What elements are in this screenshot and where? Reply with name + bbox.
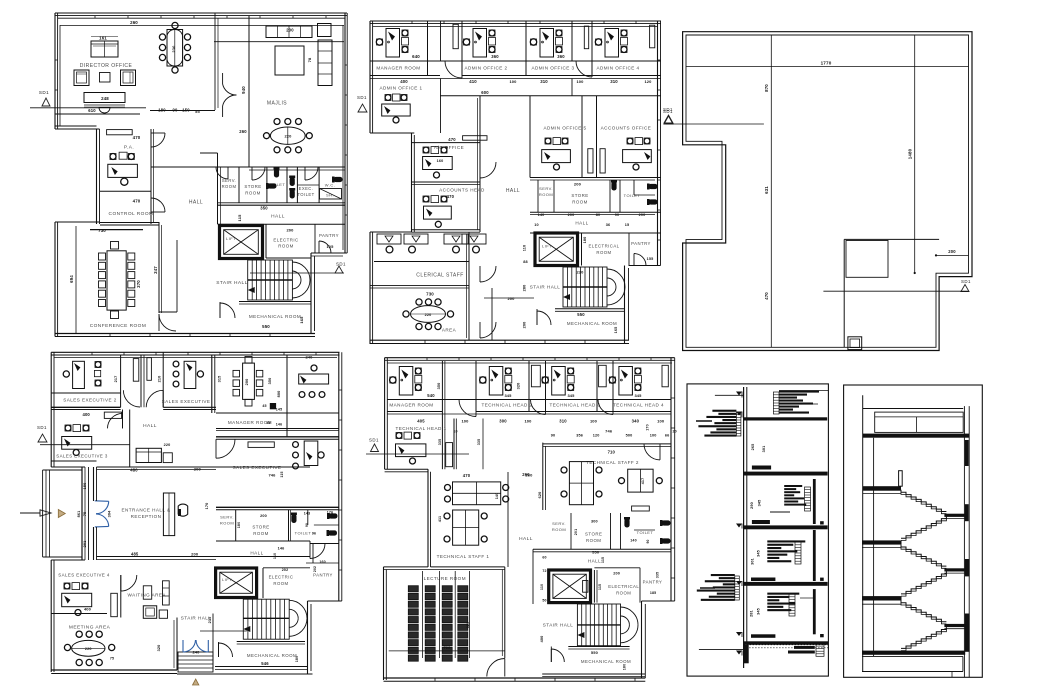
svg-text:210: 210 bbox=[158, 376, 162, 383]
svg-text:176: 176 bbox=[327, 511, 333, 515]
svg-text:60: 60 bbox=[542, 556, 546, 560]
plan C entrance arrow tan bbox=[58, 510, 65, 518]
svg-text:HALL: HALL bbox=[250, 551, 263, 556]
svg-text:281: 281 bbox=[750, 610, 754, 617]
svg-text:411: 411 bbox=[438, 516, 442, 522]
svg-text:310: 310 bbox=[610, 79, 618, 84]
svg-text:730: 730 bbox=[98, 228, 106, 233]
plan C entrance hall walls bbox=[85, 410, 310, 560]
plan B manager room bbox=[376, 29, 420, 71]
section 1 main wall bbox=[744, 387, 747, 668]
plan C hall mid label bbox=[250, 544, 325, 560]
section 2 frame bbox=[844, 385, 983, 677]
plan A control room bbox=[109, 199, 154, 218]
plan C bottom tan arrow bbox=[193, 679, 199, 685]
svg-text:SD1: SD1 bbox=[39, 90, 49, 95]
svg-text:10: 10 bbox=[453, 430, 457, 434]
svg-text:720: 720 bbox=[443, 645, 451, 650]
plan C lift bbox=[216, 568, 257, 598]
plan D lift bbox=[549, 570, 591, 603]
svg-text:100: 100 bbox=[657, 418, 665, 423]
roof plan vertical dim line 870-631-470 bbox=[764, 35, 771, 347]
svg-text:470: 470 bbox=[133, 199, 141, 204]
svg-text:140: 140 bbox=[538, 213, 545, 217]
plan A outer walls bbox=[55, 13, 347, 337]
plan B corridor bottom wall bbox=[440, 90, 661, 96]
plan A electric room bbox=[266, 224, 311, 258]
svg-text:90: 90 bbox=[615, 213, 620, 217]
svg-text:160: 160 bbox=[319, 560, 325, 564]
plan C meeting area bbox=[64, 625, 114, 666]
svg-text:550: 550 bbox=[577, 312, 585, 317]
svg-text:ROOM: ROOM bbox=[253, 531, 268, 536]
section 1 level flags lower bbox=[699, 524, 744, 656]
svg-text:100: 100 bbox=[524, 418, 532, 423]
svg-text:10: 10 bbox=[534, 223, 539, 227]
svg-text:335: 335 bbox=[656, 572, 660, 578]
plan D technical head 2 bbox=[476, 361, 532, 412]
plan B accounts head room bbox=[412, 182, 486, 232]
svg-text:500: 500 bbox=[626, 434, 633, 438]
plan A mid rooms row walls bbox=[151, 167, 345, 205]
svg-text:TECHNICAL HEAD 3: TECHNICAL HEAD 3 bbox=[550, 402, 601, 407]
plan D mechanical room bbox=[542, 647, 645, 677]
svg-text:PANTRY: PANTRY bbox=[313, 573, 333, 578]
plan C serv store toilet row bbox=[216, 507, 339, 543]
svg-text:ADMIN OFFICE 5: ADMIN OFFICE 5 bbox=[543, 126, 586, 131]
svg-text:347: 347 bbox=[153, 266, 158, 274]
svg-text:165: 165 bbox=[299, 316, 304, 324]
svg-text:ACCOUNTS HEAD: ACCOUNTS HEAD bbox=[439, 188, 485, 193]
svg-text:202: 202 bbox=[313, 566, 317, 572]
svg-text:220: 220 bbox=[164, 443, 171, 447]
plan A lift bbox=[220, 226, 263, 259]
svg-text:310: 310 bbox=[559, 418, 567, 423]
svg-text:301: 301 bbox=[751, 558, 755, 565]
svg-text:HALL: HALL bbox=[143, 423, 157, 429]
svg-text:480: 480 bbox=[130, 468, 138, 473]
svg-text:155: 155 bbox=[647, 257, 654, 261]
section 2 left wall lines bbox=[863, 395, 874, 671]
svg-text:940: 940 bbox=[241, 86, 246, 94]
svg-text:ROOM: ROOM bbox=[552, 527, 566, 532]
svg-text:MECHANICAL ROOM: MECHANICAL ROOM bbox=[247, 653, 297, 658]
svg-text:100: 100 bbox=[650, 434, 657, 438]
svg-text:88: 88 bbox=[523, 260, 528, 264]
svg-text:90: 90 bbox=[305, 523, 309, 527]
plan C mechanical room bbox=[215, 642, 308, 670]
svg-text:SALES EXECUTIVE 4: SALES EXECUTIVE 4 bbox=[58, 573, 110, 578]
svg-text:96: 96 bbox=[312, 532, 316, 536]
svg-text:120: 120 bbox=[593, 434, 600, 438]
svg-text:SD1: SD1 bbox=[357, 95, 367, 100]
svg-text:201: 201 bbox=[83, 541, 87, 548]
plan C outer walls bbox=[51, 352, 342, 674]
plan D corridor 1 bbox=[438, 361, 483, 469]
plan B admin office 2 bbox=[463, 29, 507, 71]
svg-text:202: 202 bbox=[282, 568, 288, 572]
svg-text:310: 310 bbox=[540, 79, 548, 84]
svg-text:TECHNICAL STAFF 1: TECHNICAL STAFF 1 bbox=[437, 554, 490, 559]
section 1 columns bbox=[813, 479, 824, 637]
svg-text:200: 200 bbox=[523, 322, 527, 329]
svg-text:215: 215 bbox=[208, 617, 212, 624]
plan D tech staff 1 top wall dims bbox=[463, 472, 530, 478]
svg-text:PANTRY: PANTRY bbox=[643, 580, 663, 585]
plan A hall doors bbox=[151, 133, 165, 212]
svg-text:W.C.: W.C. bbox=[325, 183, 335, 188]
plan A director office sofa set bbox=[74, 36, 136, 86]
svg-text:220: 220 bbox=[85, 647, 92, 651]
svg-text:LIFT: LIFT bbox=[226, 236, 236, 241]
svg-text:180: 180 bbox=[158, 108, 166, 113]
svg-text:90: 90 bbox=[646, 539, 650, 543]
svg-text:220: 220 bbox=[425, 313, 432, 317]
plan A exec toilet bbox=[289, 176, 314, 199]
plan D corridor 2 and cabinet bbox=[529, 361, 546, 415]
svg-text:SERV.: SERV. bbox=[552, 521, 566, 526]
svg-text:550: 550 bbox=[591, 650, 599, 655]
plan B admin office 1 bbox=[379, 61, 440, 123]
svg-text:345: 345 bbox=[757, 550, 761, 557]
svg-text:200: 200 bbox=[191, 552, 199, 557]
svg-text:300: 300 bbox=[499, 418, 507, 423]
plan A dims under director office bbox=[130, 20, 247, 134]
plan C entrance vestibule walls bbox=[77, 467, 112, 560]
plan B ac office bbox=[412, 136, 488, 178]
plan C sales exec2 band walls bbox=[51, 393, 120, 410]
plan A stair hall stairs bbox=[216, 260, 310, 300]
svg-text:80: 80 bbox=[596, 213, 601, 217]
svg-text:180: 180 bbox=[583, 237, 587, 244]
plan C stair hall stairs mid bbox=[200, 599, 307, 639]
svg-text:ROOM: ROOM bbox=[245, 191, 260, 196]
svg-text:150: 150 bbox=[83, 483, 87, 490]
svg-text:200: 200 bbox=[639, 213, 646, 217]
plan D hall band bbox=[533, 549, 605, 604]
svg-text:ROOM: ROOM bbox=[539, 192, 553, 197]
svg-text:TECHNICAL HEAD 1: TECHNICAL HEAD 1 bbox=[396, 426, 447, 431]
svg-text:100: 100 bbox=[509, 79, 517, 84]
plan C stair hall bbox=[157, 614, 213, 673]
plan C pantry bbox=[306, 544, 339, 578]
section 2 landings bbox=[862, 486, 967, 655]
plan C stair hall blue door bbox=[183, 640, 208, 652]
section 2 right wall bbox=[964, 406, 969, 677]
svg-text:185: 185 bbox=[650, 591, 656, 595]
svg-text:1480: 1480 bbox=[908, 148, 913, 159]
svg-text:165: 165 bbox=[614, 327, 618, 334]
plan D manager room bbox=[389, 367, 441, 408]
plan C corridor top bbox=[121, 355, 164, 429]
svg-text:HALL: HALL bbox=[189, 200, 203, 206]
plan A section line SD1 right bbox=[250, 262, 346, 274]
plan A majlis left wall bbox=[241, 16, 249, 167]
svg-text:345: 345 bbox=[634, 393, 642, 398]
section 1 frame bbox=[687, 384, 828, 676]
svg-text:470: 470 bbox=[463, 473, 471, 478]
svg-text:620: 620 bbox=[538, 492, 542, 499]
plan A wall between director office and majlis bbox=[215, 13, 218, 110]
svg-text:RECEPTION: RECEPTION bbox=[131, 514, 162, 519]
svg-text:610: 610 bbox=[88, 108, 96, 113]
svg-text:STAIR HALL: STAIR HALL bbox=[216, 280, 248, 286]
plan A majlis upper line bbox=[214, 41, 344, 43]
svg-text:DIRECTOR OFFICE: DIRECTOR OFFICE bbox=[80, 63, 133, 69]
plan D technical head 1 bbox=[396, 426, 447, 464]
svg-text:ADMIN OFFICE 1: ADMIN OFFICE 1 bbox=[379, 86, 422, 91]
plan A PA control divider bbox=[100, 190, 151, 192]
svg-text:200: 200 bbox=[507, 296, 515, 301]
svg-text:146: 146 bbox=[278, 546, 285, 550]
plan A conference room bbox=[69, 222, 177, 333]
plan D pantry bbox=[640, 572, 671, 603]
svg-text:370: 370 bbox=[136, 280, 141, 288]
svg-text:200: 200 bbox=[613, 572, 620, 576]
plan A store room A label bbox=[244, 184, 261, 196]
plan D technical head 3 bbox=[542, 367, 600, 408]
svg-text:200: 200 bbox=[568, 213, 575, 217]
svg-text:350: 350 bbox=[268, 378, 272, 385]
svg-text:248: 248 bbox=[101, 96, 109, 101]
section 1 left annotation stack lower bbox=[697, 574, 740, 601]
plan A majlis sofa row bbox=[266, 24, 331, 38]
svg-text:350: 350 bbox=[260, 205, 268, 210]
svg-text:260: 260 bbox=[525, 473, 533, 478]
plan A hall-serv wall bbox=[200, 153, 221, 224]
plan C entrance blue double door bbox=[95, 501, 109, 527]
section 1 dims col 1 bbox=[750, 444, 767, 617]
svg-text:550: 550 bbox=[262, 324, 270, 329]
svg-text:140: 140 bbox=[495, 493, 499, 499]
svg-text:746: 746 bbox=[268, 472, 276, 477]
svg-text:MECHANICAL ROOM: MECHANICAL ROOM bbox=[581, 659, 631, 664]
plan A director desk bbox=[84, 93, 125, 114]
section 1 black sill bars bbox=[751, 466, 775, 638]
svg-text:ELECTRICAL: ELECTRICAL bbox=[608, 584, 639, 589]
svg-text:115: 115 bbox=[601, 557, 605, 563]
plan D dims row under offices bbox=[417, 418, 665, 423]
svg-text:90: 90 bbox=[173, 108, 178, 113]
plan A majlis oval table with chairs bbox=[264, 119, 313, 153]
svg-text:201: 201 bbox=[574, 529, 578, 535]
svg-text:SALES EXECUTIVE: SALES EXECUTIVE bbox=[162, 399, 211, 404]
svg-text:MECHANICAL ROOM: MECHANICAL ROOM bbox=[567, 321, 617, 326]
svg-text:240: 240 bbox=[192, 650, 200, 655]
plan A section line SD1 left bbox=[30, 90, 146, 113]
svg-text:730: 730 bbox=[426, 292, 434, 297]
svg-text:710: 710 bbox=[608, 450, 616, 455]
svg-text:75: 75 bbox=[110, 657, 114, 661]
svg-text:200: 200 bbox=[260, 514, 267, 518]
svg-text:ROOM: ROOM bbox=[278, 244, 293, 249]
plan C manager room band bbox=[216, 403, 339, 439]
svg-text:180: 180 bbox=[623, 664, 627, 670]
section 1 ground slab hatched bbox=[744, 641, 829, 663]
plan A wc sh bbox=[320, 177, 343, 200]
svg-text:115: 115 bbox=[598, 584, 602, 590]
plan D outer walls bbox=[384, 358, 675, 682]
section 1 bottom right details bbox=[788, 644, 824, 657]
svg-text:STAIR HALL: STAIR HALL bbox=[530, 285, 560, 290]
section 2 bottom pit bbox=[862, 565, 963, 677]
svg-text:200: 200 bbox=[245, 379, 249, 386]
plan B corridor 1 bbox=[428, 21, 463, 133]
svg-text:MECHANICAL ROOM: MECHANICAL ROOM bbox=[249, 314, 301, 319]
svg-text:ACCOUNTS OFFICE: ACCOUNTS OFFICE bbox=[601, 126, 652, 131]
svg-text:220: 220 bbox=[576, 270, 584, 275]
svg-text:485: 485 bbox=[131, 552, 139, 557]
svg-text:EXEC.: EXEC. bbox=[299, 186, 314, 191]
svg-text:143: 143 bbox=[304, 512, 310, 516]
svg-text:170: 170 bbox=[646, 424, 650, 430]
roof plan 200 dim bbox=[935, 249, 969, 257]
svg-text:400: 400 bbox=[82, 412, 90, 417]
svg-text:345: 345 bbox=[758, 500, 762, 507]
plan B electrical room bbox=[582, 233, 620, 266]
svg-text:335: 335 bbox=[438, 439, 442, 445]
roof plan small hatch square bbox=[848, 337, 862, 350]
plan B SD1 markers bbox=[357, 95, 673, 123]
svg-text:200: 200 bbox=[574, 182, 582, 187]
svg-text:SD1: SD1 bbox=[663, 109, 673, 114]
svg-text:405: 405 bbox=[417, 418, 425, 423]
section 2 stair flights bbox=[901, 490, 946, 651]
svg-text:800: 800 bbox=[277, 391, 281, 398]
svg-text:360: 360 bbox=[557, 54, 565, 59]
roof plan 1480 dim line bbox=[908, 35, 916, 274]
svg-text:ROOM: ROOM bbox=[616, 591, 631, 596]
svg-text:SD1: SD1 bbox=[369, 438, 379, 443]
plan C hall sofa near entrance bbox=[136, 443, 172, 463]
plan C sales executive right middle bbox=[287, 355, 329, 437]
svg-text:180: 180 bbox=[295, 656, 299, 662]
svg-text:200: 200 bbox=[194, 467, 202, 472]
svg-text:345: 345 bbox=[504, 393, 512, 398]
svg-text:STAIR HALL: STAIR HALL bbox=[543, 623, 573, 628]
svg-text:90: 90 bbox=[551, 434, 556, 438]
svg-text:170: 170 bbox=[205, 503, 209, 510]
svg-text:ADMIN OFFICE 4: ADMIN OFFICE 4 bbox=[596, 66, 639, 71]
svg-text:100: 100 bbox=[576, 79, 584, 84]
svg-text:SD1: SD1 bbox=[37, 425, 47, 430]
plan A toilet A bbox=[266, 167, 285, 189]
plan C hall walls lower bbox=[130, 557, 213, 671]
plan B hall right wall lower bbox=[484, 288, 534, 340]
svg-text:260: 260 bbox=[130, 20, 138, 25]
svg-text:STORE: STORE bbox=[585, 532, 602, 537]
plan C entrance hall reception bbox=[122, 493, 188, 536]
roof plan SD1 marker left bbox=[663, 109, 764, 124]
svg-text:356: 356 bbox=[576, 434, 583, 438]
plan D technical staff 2 room bbox=[525, 443, 671, 511]
svg-text:110: 110 bbox=[273, 553, 277, 559]
svg-text:320: 320 bbox=[517, 383, 521, 390]
svg-text:400: 400 bbox=[400, 79, 408, 84]
svg-text:150: 150 bbox=[182, 108, 190, 113]
svg-text:45: 45 bbox=[262, 404, 266, 408]
plan C entrance porch bbox=[43, 467, 85, 560]
plan A rooms row door arcs bbox=[216, 167, 318, 180]
plan D technical head 4 bbox=[609, 365, 668, 407]
svg-text:100: 100 bbox=[461, 418, 469, 423]
svg-text:315: 315 bbox=[218, 376, 222, 383]
plan C electric room bbox=[263, 568, 310, 598]
section 1 mid annotation stack 3 bbox=[767, 593, 813, 616]
section 2 newel post bbox=[899, 471, 903, 487]
svg-text:300: 300 bbox=[591, 520, 598, 524]
plan B middle column offices bbox=[530, 96, 651, 178]
svg-text:ELECTRIC: ELECTRIC bbox=[269, 575, 294, 580]
plan D SD1 section line bbox=[366, 438, 469, 455]
plan A round meeting table bbox=[159, 22, 190, 73]
svg-text:ROOM: ROOM bbox=[572, 200, 587, 205]
svg-text:ROOM: ROOM bbox=[586, 538, 601, 543]
svg-text:AREA: AREA bbox=[442, 328, 457, 333]
roof plan 1770 dim line bbox=[686, 61, 969, 67]
svg-text:TOILET: TOILET bbox=[624, 193, 641, 198]
plan B corridor 2 bbox=[572, 21, 592, 96]
plan D corridor 3 and cabinet bbox=[597, 361, 613, 415]
svg-text:417: 417 bbox=[641, 478, 645, 484]
svg-text:640: 640 bbox=[412, 54, 420, 59]
svg-text:340: 340 bbox=[632, 418, 640, 423]
svg-text:ROOM: ROOM bbox=[273, 581, 288, 586]
plan C entrance arrow outline bbox=[20, 510, 51, 516]
svg-text:694: 694 bbox=[69, 275, 74, 283]
svg-text:TECHNICAL HEAD 2: TECHNICAL HEAD 2 bbox=[482, 402, 533, 407]
svg-text:36: 36 bbox=[606, 223, 611, 227]
svg-text:ELECTRICAL: ELECTRICAL bbox=[588, 244, 619, 249]
svg-text:15: 15 bbox=[625, 223, 630, 227]
section 1 level flags upper bbox=[715, 392, 744, 418]
svg-text:360: 360 bbox=[491, 54, 499, 59]
plan B stair hall bbox=[530, 267, 625, 307]
plan B mechanical room bbox=[537, 309, 625, 334]
svg-text:ROOM: ROOM bbox=[596, 250, 611, 255]
svg-text:470: 470 bbox=[764, 292, 769, 300]
plan C waiting area bbox=[97, 575, 170, 618]
plan B meeting area bbox=[370, 286, 469, 333]
svg-text:335: 335 bbox=[477, 439, 481, 445]
plan A mechanical room bbox=[220, 302, 311, 330]
svg-text:WAITING AREA: WAITING AREA bbox=[127, 593, 166, 598]
svg-text:MANAGER ROOM: MANAGER ROOM bbox=[389, 402, 433, 407]
svg-text:TECHNICAL STAFF 2: TECHNICAL STAFF 2 bbox=[586, 460, 639, 465]
plan A majlis bottom wall bbox=[249, 167, 345, 170]
plan B lift bbox=[535, 233, 578, 266]
plan A PA room bbox=[107, 130, 141, 186]
plan A majlis entry double door bbox=[223, 73, 237, 117]
svg-text:470: 470 bbox=[448, 137, 456, 142]
svg-text:350: 350 bbox=[437, 383, 441, 390]
svg-text:HALL: HALL bbox=[588, 558, 601, 563]
svg-text:TOILET: TOILET bbox=[297, 192, 314, 197]
plan B top offices band walls bbox=[370, 61, 661, 79]
svg-text:HALL: HALL bbox=[271, 214, 285, 220]
svg-text:STORE: STORE bbox=[252, 525, 269, 530]
svg-text:55: 55 bbox=[195, 109, 200, 114]
svg-text:MANAGER ROOM: MANAGER ROOM bbox=[376, 66, 420, 71]
svg-text:180: 180 bbox=[237, 522, 241, 528]
svg-text:MEETING AREA: MEETING AREA bbox=[69, 625, 111, 631]
plan A serv room label bbox=[222, 178, 237, 189]
svg-text:SERV.: SERV. bbox=[539, 186, 553, 191]
plan B left side dims bbox=[523, 245, 528, 329]
svg-text:MAJLIS: MAJLIS bbox=[267, 101, 287, 107]
svg-text:265: 265 bbox=[751, 444, 755, 451]
svg-text:400: 400 bbox=[84, 607, 92, 612]
